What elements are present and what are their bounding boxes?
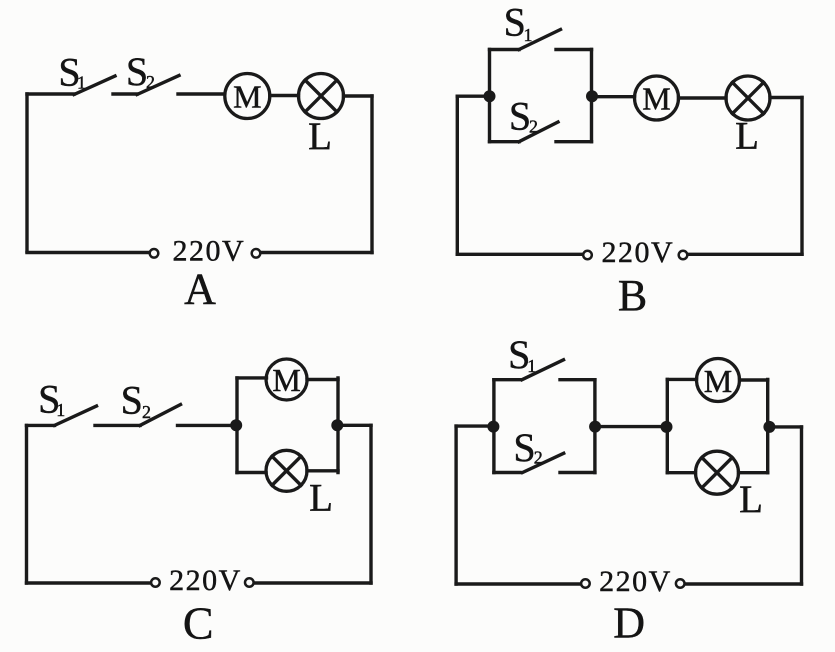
svg-text:C: C — [183, 597, 214, 648]
svg-text:M: M — [642, 81, 670, 117]
node C right junction — [331, 419, 343, 431]
svg-text:L: L — [309, 476, 333, 519]
battery terminal left (circuit C) — [151, 578, 160, 587]
wire B right vertical — [800, 98, 803, 255]
battery terminal left (circuit D) — [581, 579, 590, 588]
svg-text:2: 2 — [142, 402, 151, 422]
wire C bottom branch right — [307, 469, 338, 472]
switch S1 (circuit C) blade — [55, 406, 97, 425]
svg-text:S: S — [513, 425, 535, 470]
wire B parallel block left vertical — [488, 50, 491, 142]
wire D middle connecting — [595, 425, 666, 428]
svg-text:M: M — [233, 79, 261, 115]
battery terminal left (circuit B) — [583, 251, 592, 260]
wire D top branch left — [667, 378, 696, 381]
wire D right vertical — [800, 427, 803, 584]
motor M (circuit A) — [225, 74, 270, 119]
wire D top branch to S1 pivot — [494, 378, 520, 381]
svg-text:A: A — [184, 265, 216, 314]
wire C between S1 and S2 — [95, 424, 140, 427]
wire C bottom left segment — [27, 581, 151, 584]
wire B bottom left segment — [457, 253, 582, 256]
svg-text:1: 1 — [524, 25, 533, 45]
switch S2 (circuit B) blade — [519, 122, 558, 142]
svg-text:S: S — [504, 0, 526, 45]
lamp L (circuit B) — [726, 76, 770, 120]
switch S2 (circuit C) blade — [140, 405, 181, 426]
wire D bottom left segment — [456, 582, 580, 585]
wire D switch block right vertical — [593, 380, 596, 473]
svg-text:2: 2 — [534, 448, 543, 468]
motor M (circuit B) — [635, 76, 679, 120]
svg-text:S: S — [126, 49, 148, 94]
wire B bottom right segment — [689, 253, 803, 256]
wire C left vertical — [25, 425, 28, 583]
wire B parallel block right vertical — [590, 50, 593, 142]
lamp L (circuit A) — [299, 74, 344, 119]
lamp L (circuit C) — [266, 450, 307, 491]
wire D bottom branch right — [739, 471, 768, 474]
svg-text:1: 1 — [56, 400, 65, 420]
node C left junction — [230, 419, 242, 431]
wire D bottom branch to S2 pivot — [494, 471, 520, 474]
switch S2 (circuit A) blade — [137, 76, 179, 95]
wire D top branch right — [740, 378, 768, 381]
svg-text:1: 1 — [77, 73, 86, 93]
battery terminal right (circuit B) — [679, 251, 688, 260]
motor M (circuit C) — [266, 359, 307, 400]
svg-text:M: M — [272, 362, 300, 398]
svg-text:S: S — [509, 94, 531, 139]
svg-text:220V: 220V — [169, 564, 242, 597]
node B left junction — [484, 90, 496, 102]
wire C parallel block right vertical — [336, 378, 339, 473]
wire A from S2 to motor — [178, 92, 225, 95]
battery terminal right (circuit A) — [252, 249, 261, 258]
wire C bottom branch left — [237, 471, 266, 474]
wire A between S1 and S2 — [113, 92, 137, 95]
switch S2 (circuit D) blade — [523, 453, 564, 472]
wire D right node to corner — [769, 425, 801, 428]
svg-text:1: 1 — [527, 356, 536, 376]
switch S1 (circuit B) blade — [519, 30, 561, 50]
wire A top segment to S1 — [27, 92, 74, 95]
svg-text:L: L — [308, 115, 332, 158]
wire D switch block left vertical — [492, 380, 495, 473]
wire A bottom left segment — [27, 251, 149, 254]
svg-text:220V: 220V — [172, 235, 245, 268]
wire A right vertical — [370, 96, 373, 253]
svg-text:D: D — [613, 599, 645, 648]
wire D lamp block right vertical — [766, 379, 769, 472]
wire D top-left to node — [456, 424, 493, 427]
wire D lamp block left vertical — [666, 379, 669, 472]
svg-text:220V: 220V — [601, 236, 674, 269]
wire D bottom branch left — [667, 471, 695, 474]
battery terminal right (circuit D) — [676, 579, 685, 588]
wire B node to motor — [592, 95, 635, 98]
wire B top-left to node — [457, 94, 489, 97]
svg-text:2: 2 — [146, 72, 155, 92]
battery terminal right (circuit C) — [245, 578, 254, 587]
wire D left vertical — [454, 426, 457, 584]
switch S1 (circuit A) blade — [74, 76, 115, 95]
wire C top branch left — [237, 376, 267, 379]
switch S1 (circuit D) blade — [522, 360, 564, 380]
svg-text:M: M — [704, 363, 732, 399]
motor M (circuit D) — [697, 359, 740, 402]
battery terminal left (circuit A) — [150, 249, 159, 258]
wire A bottom right segment — [262, 251, 373, 254]
svg-text:2: 2 — [529, 117, 538, 137]
wire D top branch fixed contact — [560, 378, 595, 381]
svg-text:L: L — [739, 478, 763, 521]
node B right junction — [586, 90, 598, 102]
wire C parallel block left vertical — [235, 378, 238, 473]
lamp L (circuit D) — [696, 451, 739, 494]
node D lamp-block left junction — [661, 421, 673, 433]
wire A lamp to right corner — [344, 94, 373, 97]
node D switch-block right junction — [589, 421, 601, 433]
node D switch-block left junction — [487, 421, 499, 433]
wire B top branch to S1 pivot — [490, 48, 520, 51]
wire D bottom right segment — [686, 582, 802, 585]
wire C top segment to S1 — [27, 424, 55, 427]
wire C top branch right — [307, 378, 338, 381]
svg-text:220V: 220V — [599, 565, 672, 598]
wire C from S2 to left node — [178, 424, 237, 427]
wire B bottom branch fixed contact — [556, 140, 592, 143]
svg-text:S: S — [121, 378, 143, 423]
node D lamp-block right junction — [763, 421, 775, 433]
wire B lamp to right corner — [770, 96, 802, 99]
wire C right node to corner — [337, 424, 371, 427]
svg-text:B: B — [618, 271, 647, 320]
wire B left vertical — [456, 96, 459, 254]
wire B top branch fixed contact — [556, 48, 592, 51]
wire B bottom branch to S2 pivot — [490, 140, 520, 143]
wire C right vertical — [369, 425, 372, 583]
wire D bottom branch fixed contact — [560, 471, 595, 474]
wire A left vertical — [25, 94, 28, 252]
wire C bottom right segment — [255, 581, 371, 584]
wire A between motor and lamp — [270, 94, 299, 97]
svg-text:L: L — [735, 115, 759, 158]
wire B between motor and lamp — [679, 96, 727, 99]
